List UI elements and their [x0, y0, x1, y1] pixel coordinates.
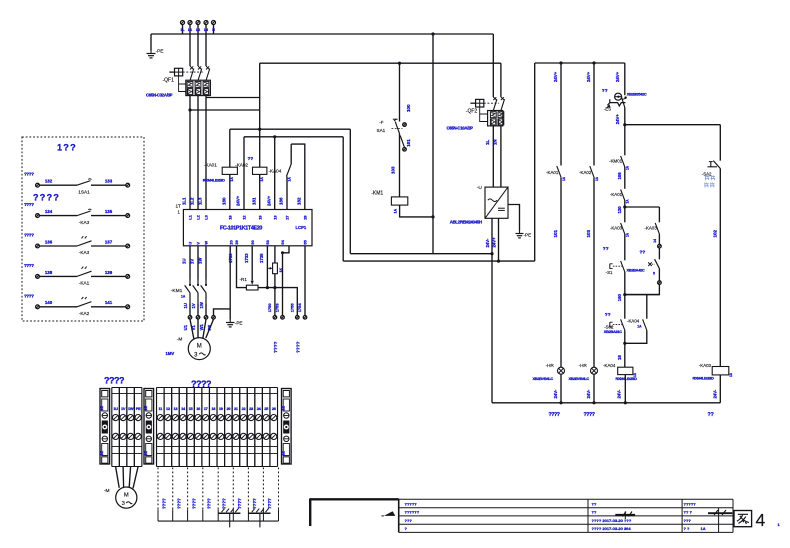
net 24V+: horizontal rail y=261.1 — [343, 260, 535, 262]
svg-text:??: ?? — [708, 412, 714, 418]
wire: terminals to motor M1 — [190, 319, 194, 338]
emergency stop NC contact — [621, 96, 625, 107]
svg-text:1A: 1A — [626, 165, 630, 170]
svg-text:L1: L1 — [188, 28, 192, 32]
svg-text:-M: -M — [177, 336, 183, 342]
wire row 3 right — [91, 245, 126, 247]
svg-text:-KA03: -KA03 — [699, 363, 712, 368]
svg-text:-R1: -R1 — [240, 277, 248, 282]
svg-text:?????: ????? — [684, 501, 697, 506]
switch SA1 pole 2 terminal circles and blade — [403, 123, 407, 127]
svg-text:1730: 1730 — [228, 253, 233, 263]
wire: L1 phase QF1 to VFD pin L1 — [189, 96, 191, 210]
wire: 24V+ pin column x=274.7 — [274, 137, 276, 210]
wire: S02 to coil KA04 — [624, 330, 626, 367]
wire: control-power tap from L3 at y=97.5 — [206, 97, 260, 99]
svg-text:24V+: 24V+ — [553, 71, 558, 82]
ground -PE (incoming supply) — [150, 34, 152, 51]
switch -KA2 right terminal — [126, 305, 130, 309]
wire: incoming supply bus L/N, y=34 — [151, 33, 214, 35]
svg-text:141: 141 — [105, 300, 113, 305]
switch -KA2 contact blade — [77, 302, 92, 307]
switch 1SA1 row 1 left terminal — [36, 183, 40, 187]
wire row 4 left — [39, 275, 77, 277]
svg-text:1750: 1750 — [267, 303, 272, 313]
svg-text:????: ???? — [104, 376, 124, 386]
svg-text:????: ???? — [162, 498, 167, 509]
terminal 1V — [118, 388, 120, 467]
circuit breaker QF2 linkage dashed — [484, 102, 499, 104]
field terminal 1755 — [296, 316, 300, 320]
terminal 24 — [254, 388, 256, 467]
svg-text:180: 180 — [221, 197, 226, 205]
switch -KA3 right terminal — [126, 244, 130, 248]
wire: ladder col2 from 24V+ rail — [593, 63, 595, 166]
junction on L1 at (190,110) — [188, 108, 191, 111]
wire: SA2 column drop — [719, 125, 721, 161]
svg-text:-KA03: -KA03 — [610, 225, 623, 230]
field terminal 1750 — [273, 316, 277, 320]
terminal 22 — [239, 388, 241, 467]
wire: VFD pin 39 to braking resistor R1 — [237, 246, 247, 288]
svg-text:L2: L2 — [196, 28, 200, 32]
svg-text:????: ???? — [192, 498, 197, 509]
svg-text:???: ??? — [405, 518, 413, 523]
svg-text:186: 186 — [279, 197, 284, 205]
net 24V-: horizontal rail y=253.7 — [350, 253, 492, 255]
junction at (282.5,252.8) — [281, 251, 284, 254]
junction: N-bus tap to KM1-coil return column x=433 — [431, 32, 434, 35]
svg-text:1A: 1A — [626, 232, 630, 237]
motor -M1 (drive output) — [188, 338, 210, 360]
wire: branch B top — [625, 206, 660, 208]
svg-text:XB2BS542C: XB2BS542C — [627, 91, 647, 96]
circuit breaker QF2 pole contacts — [493, 97, 496, 100]
svg-text:-F: -F — [379, 120, 384, 125]
svg-text:XB2BA31C: XB2BA31C — [604, 329, 622, 334]
svg-text:138: 138 — [45, 270, 53, 275]
circuit breaker QF1 linkage (dashed) — [183, 71, 204, 73]
svg-text:1U: 1U — [182, 259, 187, 265]
junction: ladder column KA02 on 24V+ rail — [592, 61, 595, 64]
terminal 19 — [216, 388, 218, 467]
terminal 16 — [193, 388, 195, 467]
terminal 23 — [246, 388, 248, 467]
svg-text:??????: ?????? — [405, 510, 420, 515]
wire row 5 right — [91, 306, 126, 308]
svg-text:103: 103 — [391, 166, 396, 174]
svg-text:?? ?: ?? ? — [684, 510, 693, 515]
svg-text:????: ???? — [24, 293, 34, 298]
circuit breaker QF1 thermal-magnetic element box — [186, 80, 211, 95]
wire: coil KA03 to 24V- rail — [719, 375, 721, 403]
wire: VFD PE pin down to ground — [229, 246, 231, 320]
terminal 20 — [224, 388, 226, 467]
terminal strip end bracket middle — [144, 389, 154, 465]
svg-text:1L1: 1L1 — [182, 197, 187, 205]
relay coil -KA02 (above VFD) — [253, 167, 267, 174]
title block divider x=718.6 — [718, 508, 720, 533]
wire: control feed riser x=259.7 down to relay KA02 — [259, 63, 261, 167]
wire: branch C drop — [646, 295, 648, 319]
svg-text:??: ?? — [603, 246, 609, 252]
svg-text:????: ???? — [24, 172, 34, 177]
net 24V-: ladder bottom rail y=402.8 — [492, 402, 720, 404]
svg-text:RXM4LB2BD: RXM4LB2BD — [693, 376, 715, 381]
terminal X0:2 (L1) — [188, 21, 192, 25]
wire: SA2 to coil KA03 — [719, 169, 721, 367]
junction: KA02 top on 24V- line — [258, 128, 261, 131]
svg-text:1A: 1A — [595, 176, 599, 181]
junction col1 bottom — [559, 401, 562, 404]
svg-text:14: 14 — [653, 239, 657, 243]
title block divider x=588 — [587, 499, 589, 532]
svg-text:1W: 1W — [199, 302, 204, 308]
svg-text:181: 181 — [251, 197, 256, 205]
terminal strip end bracket right — [282, 389, 292, 465]
svg-text:1E: 1E — [144, 450, 148, 455]
wire: QF2 out N to PSU — [500, 126, 502, 187]
junction: PSU 24V+ joins rail — [497, 260, 500, 263]
svg-text:RXM4LB2BD: RXM4LB2BD — [616, 376, 638, 381]
terminal X0:4 (L3) — [204, 21, 208, 25]
terminal strip group A top/bottom edges — [112, 387, 142, 389]
svg-text:5: 5 — [653, 272, 655, 276]
svg-text:1E: 1E — [282, 450, 286, 455]
svg-text:101: 101 — [406, 139, 411, 147]
svg-text:1W: 1W — [128, 406, 134, 411]
svg-text:-KA3: -KA3 — [79, 250, 90, 255]
svg-text:27: 27 — [285, 215, 290, 219]
switch SA1 linkage dashes — [392, 128, 403, 130]
title block frame — [399, 498, 733, 500]
svg-text:20: 20 — [226, 406, 230, 411]
svg-text:1A: 1A — [729, 372, 733, 377]
svg-text:-KA2: -KA2 — [79, 311, 90, 316]
relay coil -KA03 — [712, 367, 729, 375]
field device bottom line — [158, 520, 279, 522]
terminal strip end bracket left — [100, 389, 110, 465]
svg-text:ABL2REM24045H: ABL2REM24045H — [450, 220, 482, 225]
svg-text:1A: 1A — [394, 209, 398, 214]
branch B door terminal circle 1 — [658, 234, 660, 244]
svg-text:????: ???? — [222, 498, 227, 509]
terminal 12 — [163, 388, 165, 467]
svg-text:1L3: 1L3 — [198, 197, 203, 205]
switch -KA3 row 3 left terminal — [36, 244, 40, 248]
svg-text:1L2: 1L2 — [190, 197, 195, 205]
svg-text:-KA02: -KA02 — [579, 170, 592, 175]
wire row 5 left — [39, 306, 77, 308]
wire: PSU 24V- output — [491, 218, 493, 253]
svg-text:1A: 1A — [637, 325, 642, 329]
svg-text:??: ?? — [592, 501, 597, 506]
svg-text:103: 103 — [586, 229, 591, 237]
strike-out mark over right column — [708, 512, 732, 514]
dashed enclosure box (panel 1) — [22, 137, 144, 321]
VFD -1T Danfoss FC-101 box — [183, 210, 312, 246]
svg-text:W1: W1 — [199, 323, 204, 330]
svg-text:-KA3: -KA3 — [79, 220, 90, 225]
svg-text:-PE: -PE — [524, 233, 532, 238]
wire: analog rail to field terminal 1755 — [267, 288, 297, 316]
contact -KA04 (seal-in) — [643, 319, 647, 330]
power supply unit -U1 ABL2REM24045H (AC/DC 24V) — [485, 187, 508, 218]
svg-text:??: ?? — [640, 249, 646, 255]
svg-text:3: 3 — [122, 501, 125, 507]
wire: lamp2 to 24V- rail — [593, 374, 595, 403]
svg-text:139: 139 — [105, 270, 113, 275]
label: SA2 chinese local/remote (glyph strokes) — [705, 176, 710, 178]
svg-text:RXM4LB2BD: RXM4LB2BD — [203, 178, 225, 183]
svg-text:L3: L3 — [204, 28, 208, 32]
wire: L2 phase QF1 to VFD pin L2 — [197, 96, 199, 210]
net 24V-: distribution rail above VFD y=129.2 — [230, 128, 350, 130]
svg-text:V: V — [196, 242, 201, 245]
svg-text:XB2BA42C: XB2BA42C — [627, 267, 645, 272]
wire: VFD pin 50 potentiometer feed with arrow — [251, 246, 253, 281]
svg-text:1A: 1A — [626, 199, 630, 204]
field wiring dashed drops from strip B — [157, 468, 159, 510]
svg-text:????: ???? — [295, 341, 300, 353]
net 24V+: distribution line above VFD y=136.8 — [244, 136, 343, 138]
svg-text:XB2BVB4LC: XB2BVB4LC — [569, 376, 590, 381]
svg-text:???: ??? — [684, 518, 692, 523]
wire row 3 left — [39, 245, 77, 247]
svg-text:133: 133 — [105, 179, 113, 184]
svg-text:1V: 1V — [190, 259, 195, 264]
circuit breaker QF1 (3P) pole contacts — [190, 66, 193, 69]
push button -S1 (stop) — [621, 261, 625, 272]
svg-text:??: ?? — [592, 510, 597, 515]
svg-text:1754: 1754 — [297, 303, 302, 313]
svg-text:1753: 1753 — [275, 303, 280, 313]
terminal 17 — [201, 388, 203, 467]
svg-text:-KA04: -KA04 — [603, 363, 616, 368]
svg-text:? ?: ? ? — [684, 526, 691, 531]
motor -M (field) — [116, 487, 137, 508]
contactor -KM1 main contacts — [189, 280, 191, 285]
svg-text:1T: 1T — [176, 204, 182, 209]
wire: KA04 contact loop to pin x=304.8 — [291, 144, 305, 209]
wire: KM01 to KA01 contact — [624, 167, 626, 189]
wire: KA03 to S1 — [624, 234, 626, 260]
svg-text:-KA1: -KA1 — [79, 281, 90, 286]
net 24V+: riser to ladder top x=534.7 — [534, 63, 536, 261]
switch -KA3 row 2 left terminal — [36, 214, 40, 218]
svg-text:1755: 1755 — [290, 303, 295, 313]
wire: L3 phase QF1 to VFD pin L3 — [205, 96, 207, 210]
contactor coil -KM1 — [391, 197, 407, 205]
svg-text:-PE: -PE — [156, 49, 164, 55]
wire row 1 left — [39, 184, 77, 186]
svg-text:??: ?? — [605, 312, 611, 318]
svg-text:17: 17 — [204, 406, 208, 411]
contact -KA02 (ladder col2) — [590, 166, 594, 177]
wire: KM1 coil return to N riser — [400, 205, 433, 217]
wire: branch to SA2 column — [625, 124, 721, 126]
wire: col1 to lamp — [560, 177, 562, 367]
junction: KM1 coil return joins N riser — [431, 215, 434, 218]
junction col3 bottom — [624, 401, 627, 404]
svg-text:-KM1: -KM1 — [171, 288, 183, 294]
revision triangle mark — [384, 511, 396, 516]
svg-text:1A: 1A — [230, 177, 234, 182]
wire row 2 right — [91, 215, 126, 217]
switch SA1 (panel, 2-pole) pole 1 — [399, 63, 401, 121]
wire: seal branch top — [625, 294, 660, 296]
svg-text:101: 101 — [553, 229, 558, 237]
svg-text:-QF1: -QF1 — [163, 78, 175, 84]
resistor -R1 — [246, 285, 258, 290]
svg-text:24V+: 24V+ — [236, 195, 241, 206]
relay coil -KA01 (above VFD) — [222, 167, 237, 174]
svg-text:-M: -M — [104, 488, 110, 494]
junction col2 bottom — [592, 401, 595, 404]
svg-text:??: ?? — [248, 156, 254, 162]
svg-text:-U: -U — [477, 185, 483, 191]
svg-text:????: ???? — [273, 341, 278, 353]
wire: PSU 24V+ output — [498, 218, 500, 261]
terminal X0:3 (L2) — [196, 21, 200, 25]
svg-text:20: 20 — [228, 240, 233, 244]
title block divider x=682 — [681, 499, 683, 532]
svg-text:1MV: 1MV — [166, 351, 175, 356]
figure caption glyph (CJK drawn as vector) — [734, 511, 752, 527]
svg-text:1V: 1V — [191, 303, 196, 308]
key switch -K (branch B) — [658, 248, 660, 259]
terminal 13 — [171, 388, 173, 467]
svg-text:-KA01: -KA01 — [204, 162, 217, 167]
terminal 1W — [126, 388, 128, 467]
selector switch -SA2 (local/remote) — [713, 161, 720, 169]
svg-text:137: 137 — [105, 239, 113, 244]
switch -KA3 right terminal — [126, 214, 130, 218]
circuit breaker QF2 (2P) input wires — [492, 34, 494, 97]
contact -KM01 (ladder) — [621, 156, 625, 167]
svg-text:????: ???? — [267, 498, 272, 509]
svg-text:????: ???? — [24, 202, 34, 207]
potentiometer -RP on pin 54 wire — [274, 246, 276, 263]
svg-text:U: U — [188, 242, 193, 245]
wire: ladder col1 from 24V+ rail — [560, 63, 562, 166]
svg-text:M: M — [124, 493, 129, 499]
svg-text:W: W — [204, 241, 209, 245]
svg-text:-HR: -HR — [579, 363, 588, 368]
svg-text:-KM1: -KM1 — [371, 191, 383, 197]
svg-text:? ? ? ?: ? ? ? ? — [33, 193, 58, 203]
sheet border corner (thick) — [310, 498, 399, 500]
svg-text:????: ???? — [24, 263, 34, 268]
svg-text:24V-: 24V- — [712, 389, 717, 398]
svg-text:M: M — [197, 344, 202, 350]
switch -KA1 right terminal — [126, 275, 130, 279]
wire: 24V+ pin column x=244 — [243, 137, 245, 210]
svg-text:134: 134 — [45, 209, 53, 214]
svg-text:18: 18 — [617, 355, 622, 360]
svg-text:XB2BVB4LC: XB2BVB4LC — [533, 376, 554, 381]
junction: PSU 24V- joins rail — [490, 252, 493, 255]
wire: control-power tap from L1 at y=110 — [190, 109, 260, 111]
switch -KA3 contact blade — [77, 241, 92, 246]
terminal X0:1 (PE) top left — [181, 21, 185, 25]
svg-text:LCP1: LCP1 — [296, 225, 307, 230]
contact -KA01 (ladder col1) — [557, 166, 561, 177]
wire row 2 left — [39, 215, 77, 217]
wire: col2 to lamp — [593, 177, 595, 367]
field terminal 1754 — [303, 316, 307, 320]
svg-text:????: ???? — [237, 498, 242, 509]
wire: N riser x=433 from bus to 24V- rail — [432, 34, 434, 254]
switch 1SA1 contact blade — [77, 181, 91, 186]
svg-text:1N: 1N — [492, 139, 497, 145]
svg-text:106: 106 — [617, 172, 622, 180]
svg-text:24V+: 24V+ — [615, 114, 620, 125]
svg-text:102: 102 — [712, 229, 717, 237]
strike-out mark over middle column — [615, 514, 635, 516]
svg-text:1SA1: 1SA1 — [78, 189, 90, 194]
switch 1SA1 right terminal — [126, 183, 130, 187]
svg-text:-KA04: -KA04 — [627, 318, 640, 323]
circuit breaker QF1 test button — [175, 68, 183, 76]
wire: col3 to KM01 contact — [624, 125, 626, 156]
potentiometer wiper arrow — [267, 267, 271, 269]
svg-text:-KA01: -KA01 — [610, 192, 623, 197]
ground -PE (PSU) — [508, 205, 520, 231]
svg-text:182: 182 — [296, 197, 301, 205]
terminal 1U — [111, 388, 113, 467]
svg-text:24V-: 24V- — [553, 389, 558, 398]
wire: PE terminal slant to motor — [206, 319, 214, 338]
svg-text:50: 50 — [250, 240, 255, 244]
wire: VFD V phase to contactor KM1 — [197, 246, 199, 280]
wire: R1 to pin 53 node — [258, 287, 267, 289]
svg-text:24V-: 24V- — [485, 238, 490, 247]
indicator lamp -HR (fault) — [591, 367, 598, 374]
wire: VFD U phase to contactor KM1 — [189, 246, 191, 280]
auxiliary contact -KA04 (above VFD) — [286, 177, 288, 210]
emergency stop button -ES mushroom head — [615, 93, 622, 100]
relay coil -KA04 — [618, 367, 633, 374]
svg-text:120: 120 — [617, 206, 622, 214]
svg-text:24V+: 24V+ — [615, 71, 620, 82]
svg-text:???? 2017-03-20 364: ???? 2017-03-20 364 — [592, 526, 632, 531]
branch B door terminal circle 2 — [658, 269, 660, 281]
svg-text:1A: 1A — [701, 526, 706, 531]
svg-text:24V-: 24V- — [586, 389, 591, 398]
contact -KA03 (branch B) — [655, 223, 659, 234]
svg-text:-KA03: -KA03 — [644, 225, 657, 230]
svg-text:-ES: -ES — [604, 106, 611, 111]
svg-text:C65N-C32A/3P: C65N-C32A/3P — [146, 92, 173, 97]
svg-text:-HR: -HR — [546, 363, 555, 368]
net 24V-: drop to bottom rail x=492 — [491, 254, 493, 403]
wire: VFD pin 55 to field terminal 1754 — [304, 246, 306, 316]
field limit switch 1 — [218, 512, 240, 514]
svg-text:1??: 1?? — [57, 143, 77, 153]
terminal 25 — [261, 388, 263, 467]
svg-text:1A: 1A — [181, 294, 186, 298]
svg-text:1A: 1A — [562, 176, 566, 181]
terminal 21 — [231, 388, 233, 467]
terminal PE — [133, 388, 135, 467]
junction: SA1 branch tap (399.5,63) — [398, 62, 401, 65]
svg-text:C65N-C10A/2P: C65N-C10A/2P — [447, 126, 474, 131]
wire: to node 120 — [624, 201, 626, 223]
wire: VFD W phase to contactor KM1 — [205, 246, 207, 280]
svg-text:135: 135 — [105, 209, 113, 214]
svg-text:U1: U1 — [183, 324, 188, 330]
